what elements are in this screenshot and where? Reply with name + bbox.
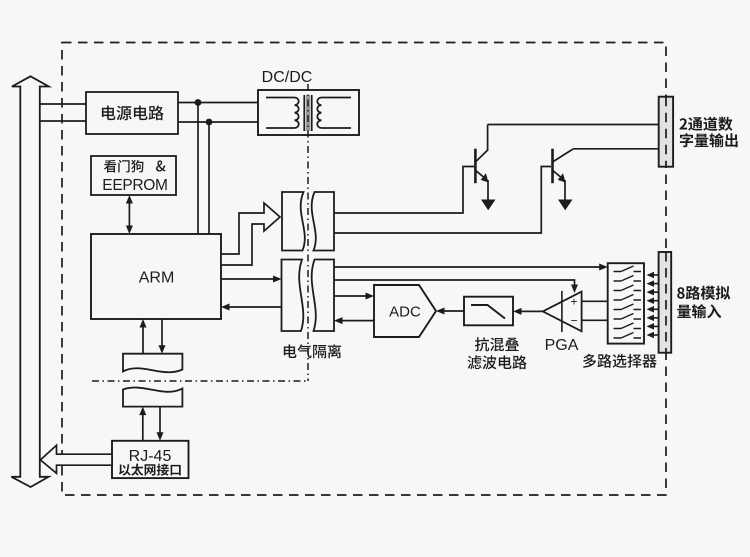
wire RJ45 to network isolator	[139, 407, 146, 441]
block arrow RJ45 to bus	[40, 445, 112, 473]
wire power to DC/DC (lower)	[178, 121, 258, 123]
wire ADC to isolator	[334, 317, 374, 324]
multiplexer box with switches	[608, 263, 644, 343]
wire node to ARM (right)	[208, 122, 210, 234]
dashed enclosure border	[62, 43, 666, 496]
wire mux to PGA -	[582, 319, 608, 321]
transistor Q2	[553, 149, 574, 211]
wire bus to power supply (lower)	[40, 120, 86, 122]
wire isolator to mux control	[334, 264, 608, 271]
digital isolator left half	[282, 192, 305, 251]
wire Q1 collector to digital output	[488, 124, 659, 126]
transistor Q1	[475, 125, 495, 211]
label 电气隔离	[284, 344, 341, 358]
RJ-45 ethernet box	[112, 441, 189, 478]
ADC block	[374, 285, 436, 337]
wire PGA to filter	[513, 308, 543, 315]
label 2-channel digital output	[680, 117, 738, 148]
svg-text:RJ-45: RJ-45	[129, 448, 172, 465]
label 多路选择器	[583, 354, 657, 368]
power supply box 电源电路	[86, 92, 178, 134]
wire mux to PGA +	[582, 300, 608, 302]
double arrow EEPROM-ARM	[126, 195, 133, 234]
isolation boundary dash-dot vertical	[307, 84, 309, 381]
wire isolator to PGA gain control	[334, 280, 578, 293]
network isolator lower half	[123, 387, 182, 406]
wire power to DC/DC (upper)	[178, 102, 258, 104]
wire bus to power supply (upper)	[40, 103, 86, 105]
label 8-channel analog input	[677, 286, 730, 319]
digital isolator right half	[312, 192, 334, 251]
junction node lower	[206, 119, 213, 126]
analog isolator left half	[282, 260, 304, 332]
svg-text:+: +	[570, 295, 577, 309]
wire ARM to network isolator	[159, 319, 166, 354]
svg-text:EEPROM: EEPROM	[102, 177, 167, 194]
wire isolator to Q2 base	[334, 167, 551, 234]
analog input connector strip	[659, 252, 672, 353]
8 analog input arrows	[647, 272, 659, 338]
wire network isolator to RJ45	[157, 407, 164, 441]
svg-text:ARM: ARM	[139, 270, 175, 287]
dashed border through connector	[665, 97, 667, 167]
network isolator upper half	[123, 354, 182, 373]
wire Q2 collector to digital output	[573, 148, 659, 150]
digital output connector strip	[659, 97, 673, 167]
wire isolator to Q1 base	[334, 167, 474, 214]
wire isolator to ADC	[334, 293, 374, 300]
block arrow ARM to digital isolator	[221, 203, 280, 265]
label 抗混叠 滤波电路	[468, 337, 527, 369]
wire network isolator to ARM	[140, 319, 147, 354]
analog isolator right half	[312, 260, 334, 332]
system bus double-headed arrow	[11, 76, 48, 487]
svg-text:−: −	[570, 314, 577, 328]
isolation boundary dash-dot horizontal	[92, 380, 308, 382]
watchdog & EEPROM box	[91, 156, 176, 195]
wire isolator to ARM	[221, 304, 282, 311]
PGA amplifier	[543, 291, 582, 332]
svg-text:PGA: PGA	[545, 337, 579, 354]
dashed border through connector	[665, 252, 667, 353]
svg-text:ADC: ADC	[389, 304, 421, 321]
DC/DC converter box with transformer	[258, 90, 359, 135]
MCU box ARM	[91, 234, 221, 319]
wire filter to ADC	[436, 308, 464, 315]
junction node upper	[195, 99, 202, 106]
anti-aliasing filter box	[464, 297, 513, 326]
wire ARM to isolator	[221, 276, 282, 283]
wire node to ARM (left)	[197, 103, 199, 235]
svg-text:DC/DC: DC/DC	[262, 69, 313, 86]
